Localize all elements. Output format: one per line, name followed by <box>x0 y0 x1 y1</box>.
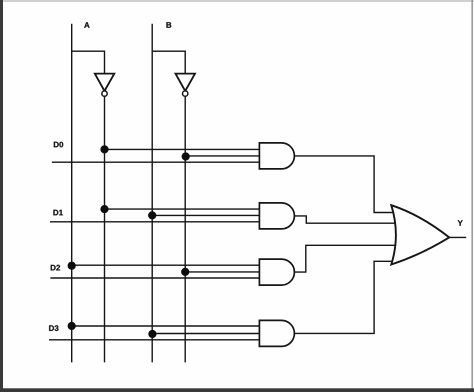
wire AND3 output to OR input 3 <box>294 245 396 272</box>
junction dot D0/Bbar <box>182 152 190 160</box>
wire D0 row select Bbar input <box>185 155 261 157</box>
wire D1 data line <box>50 221 261 223</box>
wire NOT-A vertical (Abar) <box>104 96 106 362</box>
junction dot D1/Abar <box>100 205 108 213</box>
inverter U1 (NOT A) <box>95 74 115 97</box>
wire D0 data line <box>52 161 261 163</box>
frame border bottom <box>0 388 474 392</box>
label D3 <box>49 325 58 331</box>
AND gate U5 (D2) <box>259 259 294 285</box>
label D2 <box>51 265 60 271</box>
junction dot D1/B <box>148 211 156 219</box>
wire D3 row select A input <box>72 325 261 327</box>
AND gate U3 (D0) <box>259 143 294 169</box>
junction dot D2/A <box>68 262 76 270</box>
wire A vertical <box>71 24 73 363</box>
wire B vertical <box>151 24 153 363</box>
frame border right <box>471 0 473 392</box>
wire AND2 output to OR input 2 <box>294 216 396 223</box>
wire D2 data line <box>50 277 261 279</box>
wire D3 data line <box>49 339 261 341</box>
junction dot D0/Abar <box>100 145 108 153</box>
label A <box>84 22 89 28</box>
wire AND4 output to OR input 4 <box>294 261 394 333</box>
wire D1 row select B input <box>152 214 261 216</box>
wire D2 row select A input <box>72 264 261 266</box>
wire B branch to inverter U2 <box>152 51 185 75</box>
OR gate U7 <box>391 205 449 264</box>
junction dot D3/B <box>148 330 156 338</box>
AND gate U6 (D3) <box>259 320 294 346</box>
wire D2 row select Bbar input <box>185 271 261 273</box>
AND gate U4 (D1) <box>259 203 294 229</box>
label B <box>166 22 171 28</box>
inverter U2 (NOT B) <box>176 74 196 97</box>
wire AND1 output to OR input 1 <box>294 156 396 213</box>
label D0 <box>54 142 63 148</box>
junction dot D2/Bbar <box>181 268 189 276</box>
wire D3 row select B input <box>152 333 261 335</box>
wire A branch to inverter U1 <box>72 51 105 75</box>
label D1 <box>53 210 62 216</box>
wire output Y <box>449 236 466 238</box>
wire NOT-B vertical (Bbar) <box>184 96 186 362</box>
wire D1 row select Abar input <box>105 208 262 210</box>
frame border top <box>0 0 474 2</box>
wire D0 row select Abar input <box>105 148 262 150</box>
label Y <box>458 220 463 226</box>
frame border left <box>0 0 3 392</box>
junction dot D3/A <box>68 322 76 330</box>
